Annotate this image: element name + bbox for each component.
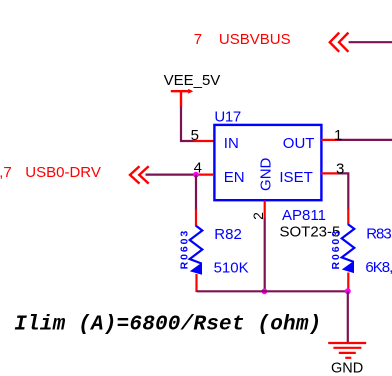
- pin 2 stub (GND): [264, 201, 266, 220]
- wire junction down to ground symbol: [347, 291, 349, 342]
- ground: [328, 343, 366, 358]
- svg-text:,7: ,7: [0, 164, 12, 181]
- junction R83 / bottom rail / ground: [345, 288, 351, 294]
- svg-text:OUT: OUT: [283, 135, 315, 152]
- junction GND pin / bottom rail: [262, 288, 268, 294]
- svg-text:ISET: ISET: [279, 169, 312, 186]
- power symbol VEE_5V: [171, 91, 191, 107]
- wire GND pin down to bottom rail: [264, 219, 266, 292]
- power symbol arrow tip: [188, 89, 193, 94]
- pin 1 stub (OUT): [321, 139, 339, 141]
- svg-text:1: 1: [334, 127, 342, 144]
- wire OUT to right edge: [338, 139, 392, 141]
- svg-text:R0603: R0603: [330, 229, 342, 269]
- svg-text:IN: IN: [224, 135, 239, 152]
- bottom rail wire: [197, 290, 348, 292]
- svg-text:VEE_5V: VEE_5V: [164, 72, 221, 89]
- svg-text:R83: R83: [366, 225, 391, 242]
- junction EN node: [193, 172, 199, 178]
- svg-text:GND: GND: [331, 360, 363, 376]
- wire VEE_5V to pin 5: [181, 107, 195, 142]
- svg-text:AP811: AP811: [282, 207, 326, 224]
- wire USBVBUS to right edge: [349, 41, 392, 43]
- svg-text:GND: GND: [258, 157, 275, 191]
- wire EN junction down to R82: [195, 175, 197, 210]
- off-page connector USBVBUS: [330, 33, 349, 52]
- svg-text:510K: 510K: [214, 259, 249, 276]
- svg-text:7: 7: [194, 31, 202, 48]
- wire ISET down to R83: [338, 173, 349, 209]
- svg-text:Ilim (A)=6800/Rset (ohm): Ilim (A)=6800/Rset (ohm): [14, 313, 321, 336]
- pin 5 stub (IN): [194, 140, 215, 142]
- svg-text:R82: R82: [214, 226, 242, 243]
- svg-text:6K8,: 6K8,: [365, 259, 392, 276]
- pin 3 stub (ISET): [321, 172, 339, 174]
- wire USB0-DRV to EN junction: [146, 174, 197, 176]
- pin 4 stub (EN): [196, 174, 214, 176]
- svg-text:R0603: R0603: [178, 229, 190, 269]
- resistor R83: [342, 209, 355, 292]
- svg-text:U17: U17: [214, 108, 240, 125]
- resistor R82: [190, 209, 203, 292]
- op-amp U17 body: [214, 125, 321, 200]
- svg-text:EN: EN: [224, 169, 245, 186]
- svg-text:5: 5: [191, 127, 199, 144]
- svg-text:USB0-DRV: USB0-DRV: [25, 164, 101, 181]
- svg-text:USBVBUS: USBVBUS: [219, 31, 291, 48]
- svg-text:3: 3: [336, 160, 344, 177]
- off-page connector USB0-DRV: [130, 166, 149, 183]
